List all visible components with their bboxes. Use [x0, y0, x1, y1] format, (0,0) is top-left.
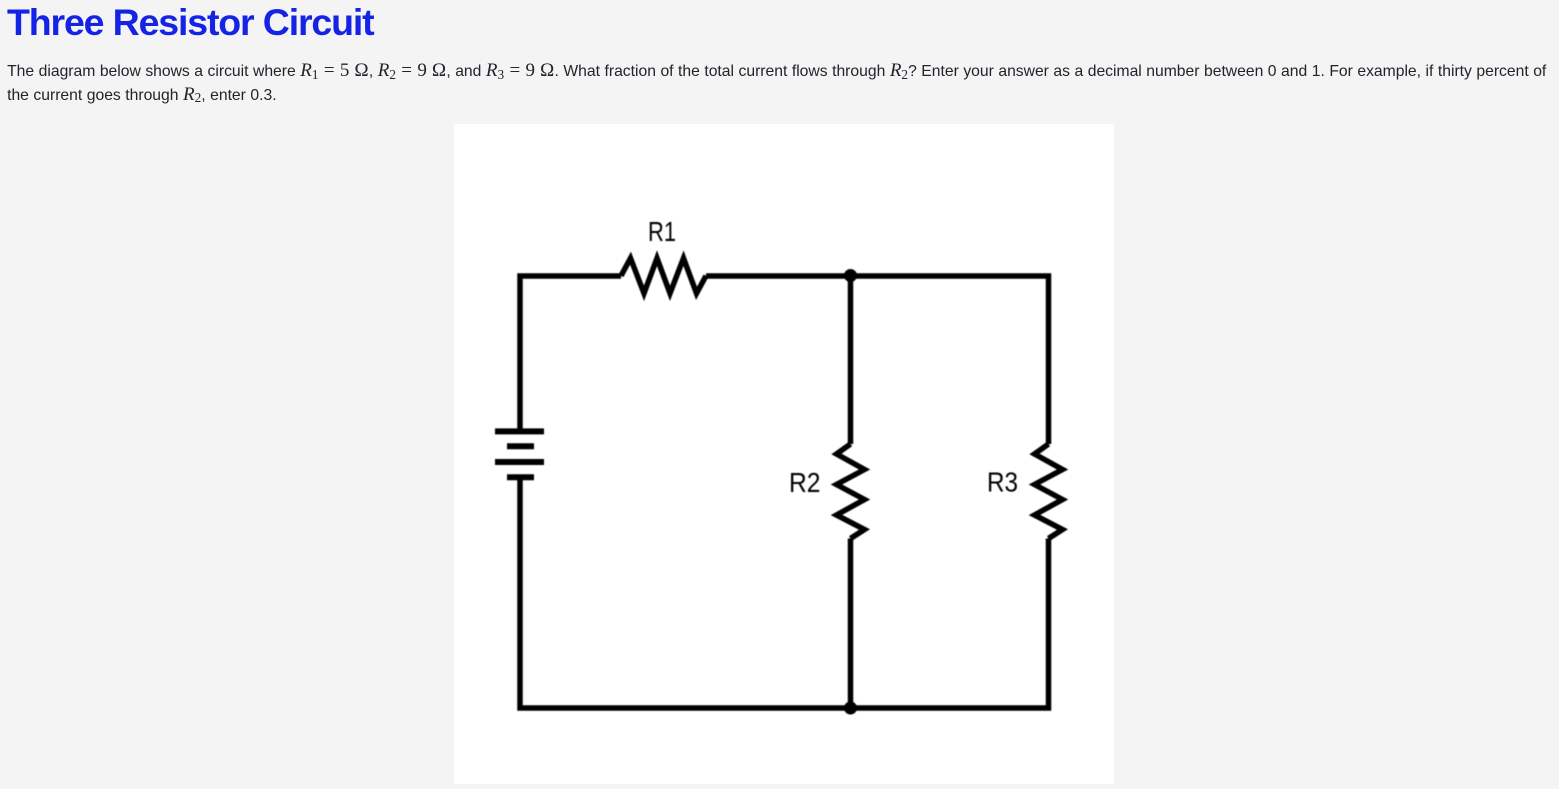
svg-text:R3: R3 — [987, 467, 1018, 498]
wire bottom loop: left vertical lower + bottom wire + right vertical lower — [520, 477, 1049, 708]
battery B1 — [495, 431, 544, 477]
wire middle branch lower — [848, 539, 854, 709]
wire top-right: top wire right segment + right vertical upper — [706, 276, 1049, 444]
resistor R3 — [1035, 444, 1063, 539]
node junction top — [844, 269, 857, 282]
resistor R2 — [837, 444, 865, 539]
wire top-left: left vertical upper + top wire left segment — [520, 276, 621, 431]
wire middle branch upper — [848, 276, 854, 444]
node junction bottom — [844, 702, 857, 715]
svg-text:R2: R2 — [789, 467, 821, 498]
resistor R1 — [621, 258, 706, 293]
svg-text:R1: R1 — [648, 216, 676, 247]
